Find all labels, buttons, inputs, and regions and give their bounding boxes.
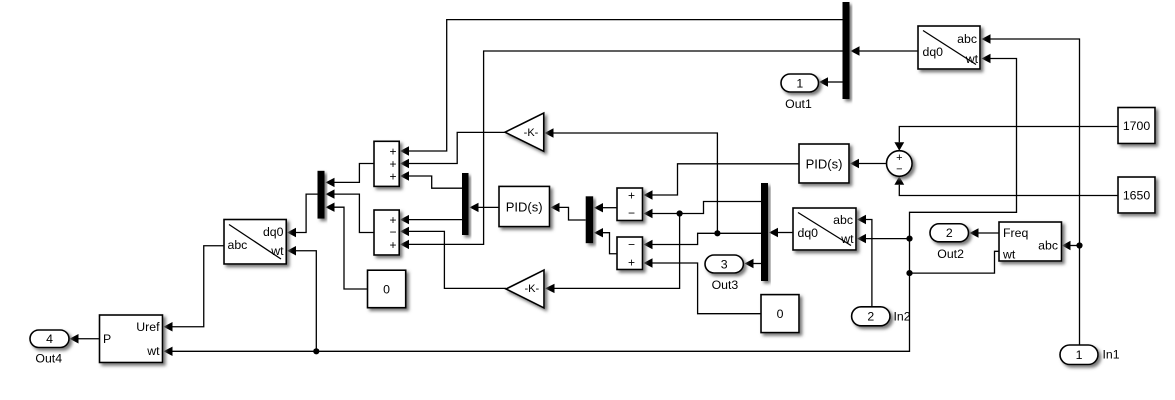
svg-text:dq0: dq0	[798, 226, 819, 240]
svg-text:+: +	[389, 238, 396, 252]
wire: sum S4 output to mux M5 input 1	[594, 203, 617, 212]
output port Out2	[930, 224, 969, 261]
svg-text:abc: abc	[833, 213, 853, 227]
wire: demux M3 bottom output to sum S3 input 1	[400, 215, 462, 224]
svg-text:PID(s): PID(s)	[506, 200, 543, 215]
svg-text:wt: wt	[1002, 248, 1016, 262]
svg-text:+: +	[628, 188, 635, 202]
wire: block U1 dq0 output to demux M1	[851, 46, 919, 55]
svg-text:Out3: Out3	[712, 278, 739, 292]
svg-text:wt: wt	[146, 344, 160, 358]
mux bar M5	[586, 196, 594, 243]
wire: mux M5 output to PID2	[551, 203, 586, 220]
wire: demux M2 top output to sum S4 minus input, branch to gain G2	[545, 202, 761, 294]
gain block G1	[505, 113, 544, 151]
junction: wt net bottom bus to U3 wt	[313, 348, 319, 354]
PID controller PID2	[499, 186, 550, 226]
sum block S3 plus minus plus	[374, 210, 399, 255]
junction on In1 riser	[1076, 242, 1082, 248]
wire: PLL wt output net	[164, 54, 1017, 356]
svg-text:Uref: Uref	[136, 320, 160, 334]
junction: wt net split up/down	[906, 270, 912, 276]
svg-text:−: −	[628, 206, 635, 220]
output port Out4	[30, 330, 69, 366]
sum block S4 plus minus	[617, 188, 643, 221]
sum block S2 plus plus plus	[374, 141, 399, 186]
svg-text:2: 2	[867, 310, 874, 324]
svg-text:dq0: dq0	[923, 45, 944, 59]
junction: branch to gain G2	[677, 210, 683, 216]
svg-text:wt: wt	[840, 232, 854, 246]
output port Out1	[781, 74, 819, 111]
abc-to-dq0 block U2	[793, 208, 856, 250]
svg-text:abc: abc	[957, 32, 977, 46]
wire: constant C3 zero to sum S5 plus input	[644, 258, 762, 313]
wire: constant 1700 to sum S1 plus input	[894, 127, 1118, 151]
constant 1650	[1118, 177, 1155, 213]
svg-text:+: +	[389, 170, 396, 184]
svg-text:Out4: Out4	[35, 352, 62, 366]
svg-text:0: 0	[777, 307, 784, 321]
wire: demux M1 top output to sum S2 input 1	[400, 20, 843, 156]
wire: demux M1 bottom output to Out1	[819, 77, 843, 86]
constant C4 zero	[368, 270, 406, 308]
svg-text:3: 3	[721, 257, 728, 271]
svg-text:wt: wt	[965, 52, 979, 66]
wire: sum S1 output to PID1	[850, 159, 887, 168]
wire: U3 abc output to U4 Uref input	[164, 246, 225, 332]
wire: demux M1 middle output to sum S3 input 3	[400, 51, 843, 249]
dq0-to-abc block U3	[224, 220, 286, 265]
svg-text:1650: 1650	[1123, 189, 1151, 203]
svg-text:Out2: Out2	[937, 247, 964, 261]
constant 1700	[1118, 108, 1155, 144]
wire: constant 1650 to sum S1 minus input	[894, 176, 1118, 195]
wire: PID1 output to sum S4 plus input	[644, 164, 800, 200]
svg-text:P: P	[103, 332, 111, 346]
output port Out3	[705, 255, 743, 292]
constant C3 zero	[761, 295, 799, 333]
sum block S5 minus plus	[617, 237, 643, 270]
wire: demux M3 top output to sum S2 input 3	[400, 171, 462, 188]
svg-text:wt: wt	[270, 244, 284, 258]
discrete PLL block U4 P/Uref/wt	[100, 315, 163, 363]
svg-text:1: 1	[1076, 348, 1083, 362]
svg-text:-K-: -K-	[524, 127, 539, 139]
svg-text:1: 1	[796, 76, 803, 90]
input port In1	[1060, 345, 1120, 365]
svg-text:abc: abc	[228, 238, 248, 252]
svg-text:2: 2	[946, 226, 953, 240]
svg-text:+: +	[628, 256, 635, 270]
wire: sum S3 output to mux M4 input 2	[326, 189, 375, 232]
wire: sum S2 output to mux M4 input 1	[326, 164, 375, 188]
wire: U4 P output to Out4	[70, 334, 100, 343]
demux bar M1	[843, 2, 850, 99]
wire: demux M2 bottom output to Out3	[745, 259, 762, 268]
wire: constant C4 zero to mux M4 input 3	[326, 203, 368, 290]
wire: block U2 dq0 output to demux M2	[769, 228, 793, 237]
svg-text:In1: In1	[1103, 348, 1120, 362]
demux bar M3	[462, 173, 469, 235]
wire: mux M4 output to U3 dq0 input	[287, 194, 318, 237]
PID controller PID1	[799, 144, 849, 183]
wire: In2 riser to U2 abc input	[857, 215, 872, 307]
svg-text:dq0: dq0	[263, 225, 284, 239]
svg-text:0: 0	[383, 282, 390, 296]
wire: PLL Freq output to Out2	[970, 228, 1000, 237]
svg-text:-K-: -K-	[524, 283, 539, 295]
sum junction S1	[887, 151, 913, 177]
junction: branch to gain G1	[714, 230, 720, 236]
gain block G2	[506, 270, 544, 308]
svg-text:−: −	[628, 237, 635, 251]
wire: gain G1 output to sum S2 input 2	[400, 132, 505, 168]
mux bar M4	[318, 171, 325, 219]
wire: gain G2 output to sum S3 input 2	[400, 227, 506, 289]
svg-text:1700: 1700	[1123, 119, 1151, 133]
wire: PID2 output to demux M3	[470, 203, 500, 212]
svg-text:Freq: Freq	[1003, 226, 1028, 240]
svg-text:4: 4	[46, 332, 53, 346]
svg-text:−: −	[896, 164, 902, 176]
input port In2	[852, 307, 911, 326]
svg-text:PID(s): PID(s)	[806, 157, 843, 172]
PLL block U5 Freq/wt/abc	[999, 222, 1062, 262]
wire: demux M2 middle output to sum S5 minus input, branch to gain G1	[545, 128, 762, 249]
demux bar M2	[761, 183, 768, 281]
svg-text:In2: In2	[894, 310, 911, 324]
svg-text:Out1: Out1	[785, 97, 812, 111]
wire: In1 riser to U1 abc input, branch to PLL abc input	[982, 34, 1083, 345]
abc-to-dq0 block U1	[918, 26, 980, 69]
junction: wt net at B2 wt row	[906, 236, 912, 242]
svg-text:abc: abc	[1038, 239, 1058, 253]
svg-text:+: +	[896, 152, 902, 164]
wire: sum S5 output to mux M5 input 2	[594, 228, 617, 254]
